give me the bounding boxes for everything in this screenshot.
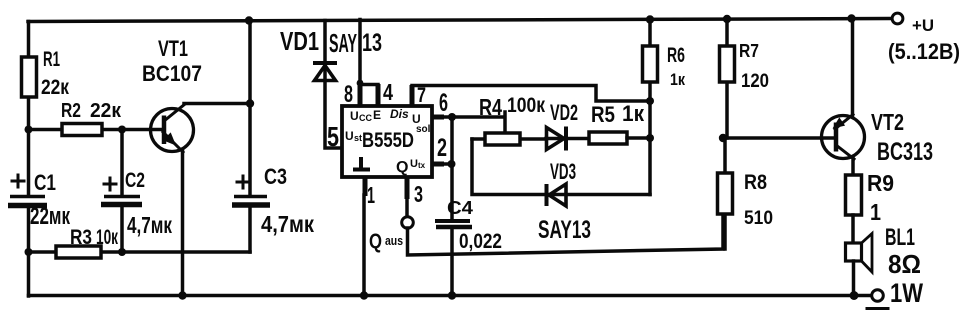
svg-text:R3: R3 [70,226,92,249]
svg-text:U: U [410,158,418,170]
svg-text:E: E [373,108,381,122]
svg-text:1W: 1W [890,278,923,308]
wire C3 vertical [248,21,252,197]
node base-R7-R8 [719,134,727,142]
svg-text:13: 13 [362,29,382,57]
svg-text:aus: aus [385,233,403,248]
wire VT2 emitter [851,19,855,117]
svg-text:1к: 1к [670,70,685,89]
node C3-toprail [245,16,253,24]
pin 7 [410,85,415,106]
svg-text:0,022: 0,022 [459,230,502,253]
svg-text:tx: tx [418,161,426,170]
svg-text:22к: 22к [90,100,122,122]
svg-text:120: 120 [741,71,769,92]
resistor R7 [725,19,729,138]
node pin2 [448,160,456,168]
svg-text:SAY13: SAY13 [538,216,591,244]
terminal -U [872,290,884,302]
terminal Q aus [402,217,414,229]
svg-text:VD3: VD3 [550,159,576,184]
wire pin6 line [443,112,505,134]
wire VT2 base [723,136,836,140]
svg-text:R7: R7 [739,41,759,61]
pin 6 [432,115,444,120]
svg-text:22к: 22к [41,76,69,99]
svg-text:R2: R2 [61,100,81,122]
wire VT2 collector [851,158,855,175]
resistor R5 [589,132,627,144]
diode VD3 [549,184,566,206]
svg-text:SAY: SAY [329,28,357,58]
svg-text:10к: 10к [96,226,118,249]
svg-text:+U: +U [912,16,934,35]
pin 3 [405,177,410,199]
node collector [246,99,254,107]
resistor R8 [723,138,727,249]
capacitor C1 [10,195,45,199]
wire VT1 collector [184,102,250,106]
svg-text:CC: CC [359,113,372,123]
node R6-pin7 [646,97,654,105]
diode VD2 [546,137,589,141]
svg-text:22мк: 22мк [30,203,71,230]
node pin6-C4 [448,113,456,121]
svg-text:BC107: BC107 [142,61,202,86]
wire pins 8-4 bridge [360,83,378,87]
svg-text:4,7мк: 4,7мк [127,212,172,238]
svg-text:C3: C3 [264,164,287,189]
svg-text:6: 6 [439,89,448,117]
capacitor C3 [234,195,267,199]
transistor VT2 [822,109,934,166]
wire left vertical [27,22,31,197]
wire R2 line [29,128,163,132]
svg-text:(5..12В): (5..12В) [888,39,960,64]
node R2-left [25,126,33,134]
wire top rail [28,19,892,22]
svg-text:BL1: BL1 [885,224,915,251]
svg-text:Q: Q [369,230,382,253]
capacitor C4 [435,219,470,223]
wire Vcc drop [358,20,362,85]
svg-text:R6: R6 [667,44,685,67]
node emitter-gnd [178,291,186,299]
svg-text:U: U [350,109,359,123]
svg-text:VT1: VT1 [158,36,188,61]
node R5-right [646,134,654,142]
wire pin3 to R8 [408,215,724,255]
node pin1-gnd [360,291,368,299]
resistor R3 [56,246,101,258]
wire VD3 line [472,139,650,195]
resistor R9 [846,175,862,215]
node R2-C2 [118,126,126,134]
svg-text:VD2: VD2 [550,100,578,125]
svg-text:R9: R9 [867,170,894,196]
svg-text:R1: R1 [43,48,60,71]
svg-text:8Ω: 8Ω [888,249,921,279]
svg-text:3: 3 [414,181,423,207]
pin 4 [376,84,381,106]
svg-text:C4: C4 [447,198,473,218]
pin 2 [432,162,444,167]
svg-text:B555D: B555D [362,129,414,152]
svg-text:Dis: Dis [390,107,409,121]
svg-text:VT2: VT2 [871,109,904,135]
svg-text:1: 1 [367,182,375,208]
svg-text:5: 5 [327,121,339,152]
svg-text:st: st [354,133,362,143]
svg-text:VD1: VD1 [280,26,319,56]
resistor R4 [472,137,546,141]
svg-text:R5: R5 [591,102,615,127]
wire R3 line [29,250,251,254]
wire VT1 emitter [181,151,185,296]
speaker BL1 [846,243,862,261]
resistor R1 [22,57,37,97]
svg-text:Q: Q [396,159,408,176]
svg-text:510: 510 [744,208,773,229]
svg-text:BC313: BC313 [877,138,933,166]
node R3-C2 [118,248,126,256]
wire bottom rail [29,294,872,298]
resistor R2 [62,124,102,136]
wire C2 vertical [120,130,124,197]
svg-text:R8: R8 [744,171,767,194]
wire right branch vertical [648,101,652,195]
svg-text:8: 8 [344,81,353,108]
svg-text:7: 7 [417,84,426,107]
svg-text:C2: C2 [125,169,145,192]
svg-text:4,7мк: 4,7мк [261,211,314,237]
svg-text:R4: R4 [479,94,502,120]
wire pin7 to R6 bottom [412,86,650,102]
diode VD1 [325,21,342,149]
svg-text:1: 1 [870,199,881,225]
svg-text:U: U [345,129,354,143]
resistor R6 [648,19,652,101]
node R3-left [25,248,33,256]
terminal +U [892,13,903,24]
svg-text:1к: 1к [622,101,645,126]
node C4-gnd [448,291,456,299]
wire C4 vertical [450,117,454,219]
pin 8 [358,84,363,106]
svg-text:2: 2 [437,134,447,162]
op-amp U1 (timer B555D box) [342,106,432,177]
transistor VT1 [142,36,202,152]
svg-text:4: 4 [383,79,393,105]
svg-text:sol: sol [416,124,431,135]
svg-text:100к: 100к [507,94,545,117]
capacitor C2 [104,195,140,199]
svg-text:C1: C1 [34,170,56,195]
pin 1 [363,177,368,196]
